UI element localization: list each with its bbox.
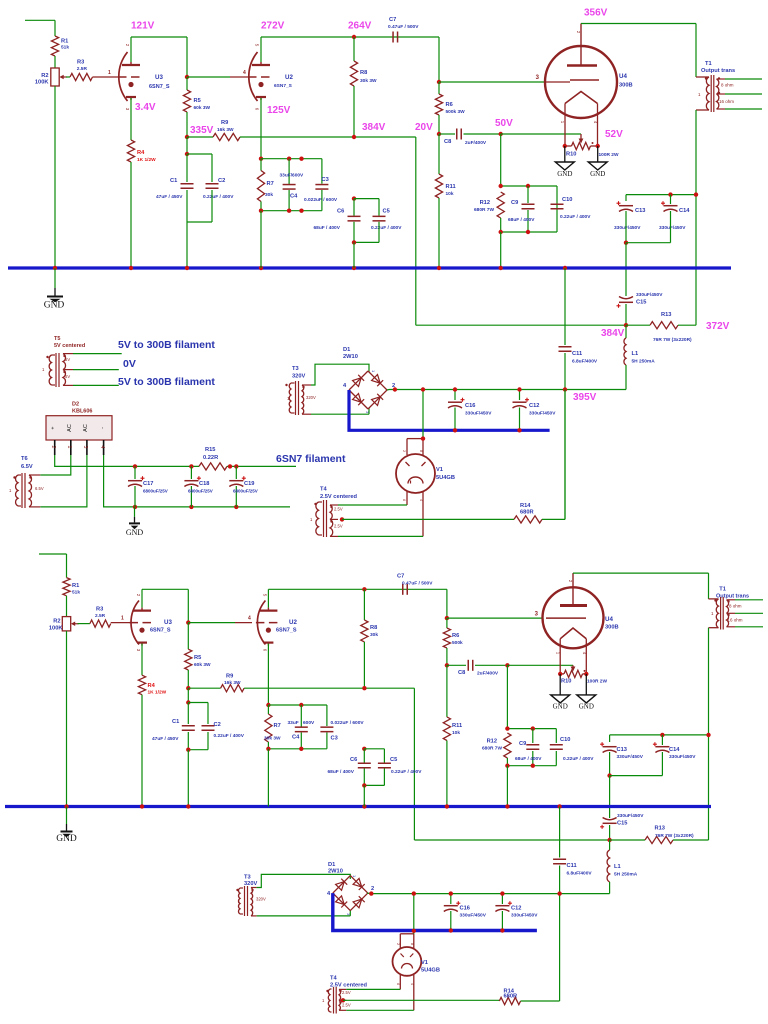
svg-text:2.5V: 2.5V [342, 1003, 351, 1008]
wire R12/C9/C10 top rail (2) [507, 728, 556, 730]
svg-text:GND: GND [579, 703, 594, 711]
wire C1/C2 bottom rail (2) [188, 749, 208, 751]
wire C6/C5 bottom rail [354, 241, 379, 243]
svg-text:68uF / 400V: 68uF / 400V [314, 225, 341, 231]
svg-text:U4: U4 [605, 616, 613, 623]
svg-text:C16: C16 [460, 906, 470, 912]
wire R3 to U3 grid [93, 76, 119, 78]
wire to U2 grid (2) [188, 622, 235, 624]
svg-text:R9: R9 [221, 120, 228, 126]
svg-text:-: - [100, 427, 106, 429]
resistor R11 [438, 134, 440, 174]
svg-text:R1: R1 [72, 583, 79, 589]
svg-text:330uF/450V: 330uF/450V [511, 913, 538, 919]
svg-text:5V to 300B filament: 5V to 300B filament [118, 376, 215, 388]
svg-text:0.22uF / 400V: 0.22uF / 400V [563, 756, 594, 762]
svg-text:U4: U4 [619, 73, 627, 80]
resistor R14 [514, 516, 542, 523]
svg-text:272V: 272V [261, 21, 285, 32]
wire U4 plate rail to T1 [581, 23, 696, 25]
svg-text:0.022uF / 600V: 0.022uF / 600V [304, 197, 338, 203]
svg-text:6SN7_S: 6SN7_S [276, 628, 297, 634]
wire R2 down to ground bus [54, 86, 56, 268]
svg-text:330uF/450V: 330uF/450V [465, 411, 492, 417]
svg-text:R8: R8 [360, 70, 367, 76]
svg-text:8 ohm: 8 ohm [721, 83, 734, 88]
wire R7/C4/C3 top rail [259, 157, 263, 161]
svg-text:C13: C13 [635, 208, 645, 214]
svg-text:330uF/450V: 330uF/450V [659, 225, 686, 231]
svg-text:300B: 300B [619, 83, 633, 89]
wire D2 AC2 to T6 bottom [40, 455, 87, 507]
svg-text:6: 6 [402, 499, 406, 501]
capacitor C12 [519, 390, 521, 401]
svg-text:372V: 372V [706, 321, 730, 332]
wire 384V drop [415, 137, 417, 325]
svg-text:AC: AC [83, 424, 89, 432]
resistor R5 (2) [187, 623, 189, 650]
svg-text:4: 4 [99, 446, 105, 449]
resistor R5 [186, 77, 188, 90]
svg-text:C5: C5 [390, 757, 397, 763]
wire 50V to R10 wiper [501, 133, 581, 135]
wire 384V rail (2) [414, 839, 609, 841]
node U3 plate / R5 [185, 75, 189, 79]
capacitor C13 (2) [603, 746, 617, 748]
wire R4 to bus (2) [141, 695, 143, 807]
svg-text:R5: R5 [194, 655, 201, 661]
capacitor C15 (2) [603, 818, 617, 820]
svg-text:GND: GND [557, 170, 572, 178]
svg-text:33uF/600V: 33uF/600V [280, 172, 305, 178]
wire R7 node to bus [260, 211, 262, 268]
wire C13/C14 bottom rail (2) [607, 773, 611, 777]
resistor R8 (2) [363, 589, 365, 620]
wire C13/C14 top rail (2) [610, 734, 709, 736]
svg-text:C16: C16 [465, 403, 475, 409]
svg-text:330uF/450V: 330uF/450V [669, 754, 696, 760]
svg-text:C3: C3 [322, 177, 329, 183]
potentiometer R2 [51, 68, 59, 86]
svg-text:C9: C9 [511, 200, 518, 206]
svg-text:100R 2W: 100R 2W [599, 152, 619, 158]
svg-text:1: 1 [108, 70, 111, 76]
resistor R14 (2) [499, 997, 520, 1004]
capacitor C14 [670, 195, 672, 204]
resistor R11 (2) [446, 665, 448, 717]
svg-text:T5: T5 [54, 336, 60, 342]
wire T3 to bridge bottom [311, 413, 369, 415]
wire input bottom-left [39, 553, 67, 555]
svg-text:680R: 680R [504, 994, 518, 1000]
svg-text:6: 6 [396, 983, 400, 985]
ground GND right of R10 [597, 146, 599, 162]
node U4 grid junction (2) [445, 616, 449, 620]
svg-text:T1: T1 [705, 61, 712, 67]
bus junction dots (2) [64, 804, 68, 808]
svg-text:20V: 20V [415, 122, 433, 133]
svg-text:68uF / 400V: 68uF / 400V [515, 756, 542, 762]
svg-text:GND: GND [56, 834, 77, 844]
svg-text:47uF / 450V: 47uF / 450V [152, 736, 179, 742]
ground GND filament [134, 507, 136, 517]
wire U2 cathode down (2) [267, 644, 269, 705]
svg-text:T3: T3 [292, 366, 299, 372]
resistor R9 (2) [188, 687, 220, 689]
svg-text:68uF / 400V: 68uF / 400V [508, 217, 535, 223]
svg-text:0.22uF / 400V: 0.22uF / 400V [203, 194, 234, 200]
svg-text:100R 2W: 100R 2W [587, 679, 607, 685]
capacitor C1 [186, 154, 188, 182]
svg-text:6.5V: 6.5V [21, 464, 33, 470]
svg-text:C4: C4 [292, 735, 300, 741]
wire R4 to ground bus [130, 162, 132, 268]
capacitor C14 (2) [661, 735, 663, 745]
wire 395V rail [389, 389, 626, 391]
svg-text:384V: 384V [362, 122, 386, 133]
svg-text:0.47uF / 500V: 0.47uF / 500V [388, 24, 419, 30]
svg-text:C9: C9 [519, 741, 526, 747]
svg-text:C1: C1 [170, 178, 177, 184]
svg-text:R12: R12 [487, 739, 497, 745]
svg-text:R11: R11 [452, 723, 462, 729]
wire C13 node down to C15 [625, 243, 627, 296]
svg-text:16k 3W: 16k 3W [224, 680, 241, 686]
wire D2 - to bottom rail [104, 455, 135, 507]
svg-text:R11: R11 [446, 184, 456, 190]
svg-text:2.5V centered: 2.5V centered [320, 494, 358, 500]
resistor R12 [497, 192, 504, 218]
svg-text:125V: 125V [267, 105, 291, 116]
svg-text:C8: C8 [458, 670, 465, 676]
resistor R7 (2) [267, 705, 269, 714]
capacitor C6 (2) [363, 749, 365, 763]
wire T3 to bridge top [311, 364, 369, 385]
capacitor C10 [556, 203, 558, 210]
svg-text:5U4GB: 5U4GB [421, 968, 440, 974]
svg-text:395V: 395V [573, 392, 597, 403]
svg-text:5V: 5V [65, 357, 70, 362]
capacitor C6 [353, 199, 355, 216]
svg-text:C7: C7 [397, 574, 404, 580]
capacitor C4 (2) [300, 705, 302, 727]
wire U3 cathode to R4 (2) [141, 644, 143, 676]
svg-text:6SN7_S: 6SN7_S [149, 84, 170, 90]
svg-text:+: + [51, 426, 57, 429]
svg-text:6SN7 filament: 6SN7 filament [276, 453, 346, 465]
capacitor C4 [288, 159, 290, 184]
capacitor C2 (2) [202, 725, 215, 727]
svg-text:5V to 300B filament: 5V to 300B filament [118, 339, 215, 351]
wire R7/C4/C3 bottom rail [261, 210, 322, 212]
capacitor C9 [527, 186, 529, 203]
svg-text:C1: C1 [172, 719, 179, 725]
wire C6 node to bus [353, 242, 355, 268]
capacitor C5 [373, 215, 386, 217]
wire R7 node to bus (2) [267, 749, 269, 807]
svg-text:C18: C18 [199, 481, 209, 487]
svg-text:30k 3W: 30k 3W [264, 736, 281, 742]
svg-text:6.5V: 6.5V [35, 486, 44, 491]
wire 395V rail (2) [371, 893, 610, 895]
tube U4 300B [545, 46, 617, 118]
svg-text:R10: R10 [566, 152, 576, 158]
svg-text:335V: 335V [190, 125, 214, 136]
svg-text:6800uF/25V: 6800uF/25V [233, 489, 258, 494]
svg-text:330uF/450V: 330uF/450V [460, 913, 487, 919]
svg-text:4: 4 [410, 983, 414, 985]
svg-text:GND: GND [590, 170, 605, 178]
node R12 top feed (2) [505, 663, 509, 667]
capacitor C11 (2) [559, 807, 561, 858]
ground GND symbol below bus (2) [66, 807, 68, 825]
svg-text:4: 4 [248, 616, 251, 622]
wire T3 to bridge top (2) [257, 874, 351, 887]
wire to 300B grid [439, 81, 545, 83]
wire R1 to R2 [54, 56, 56, 68]
svg-text:C15: C15 [636, 300, 646, 306]
ground bus (blue) (2) [5, 805, 711, 808]
svg-text:0.022uF / 600V: 0.022uF / 600V [331, 720, 365, 726]
wire 395V to R14 [564, 390, 566, 520]
wire R12 node down (2) [506, 665, 508, 728]
ground GND symbol below bus [54, 268, 56, 288]
wire R9 to 384V drop (2) [244, 687, 414, 689]
inductor L1 (2) [609, 840, 611, 850]
resistor R12 (2) [504, 733, 511, 758]
resistor R1 [51, 36, 58, 56]
svg-text:320V: 320V [244, 881, 257, 887]
svg-text:6800uF/25V: 6800uF/25V [188, 489, 213, 494]
triode U3 (6SN7) [119, 52, 128, 101]
svg-text:C14: C14 [669, 747, 680, 753]
svg-text:D1: D1 [328, 862, 335, 868]
svg-text:76R 7W (3x220R): 76R 7W (3x220R) [655, 833, 694, 839]
svg-text:C10: C10 [562, 197, 572, 203]
svg-text:320V: 320V [292, 374, 305, 380]
ground GND left of R10 (2) [559, 674, 561, 695]
svg-text:U2: U2 [289, 619, 297, 626]
svg-text:C5: C5 [383, 209, 390, 215]
svg-text:R1: R1 [61, 38, 68, 44]
svg-text:320V: 320V [256, 897, 266, 902]
svg-text:30k: 30k [265, 192, 273, 198]
hum pot R10 (2) [572, 665, 574, 668]
node 384V / R8 [352, 135, 356, 139]
svg-text:C19: C19 [244, 481, 254, 487]
svg-text:U2: U2 [285, 74, 293, 81]
rectifier minus bus (blue) (2) [333, 893, 537, 930]
wire T4 top tap to V1 (2) [346, 988, 400, 990]
svg-text:D1: D1 [343, 347, 350, 353]
wire R12/C9/C10 bottom rail (2) [507, 765, 556, 767]
capacitor C8 [439, 133, 455, 135]
svg-text:6SN7_S: 6SN7_S [150, 628, 171, 634]
svg-text:33uF: 33uF [288, 720, 299, 726]
wire T1 primary down (2) [708, 628, 710, 840]
svg-text:3.4V: 3.4V [135, 102, 156, 113]
svg-text:T4: T4 [330, 976, 337, 982]
capacitor C3 (2) [320, 726, 333, 728]
svg-text:R6: R6 [446, 102, 453, 108]
wire bridge + output [387, 389, 389, 392]
svg-text:GND: GND [126, 528, 144, 537]
svg-text:0.47uF / 500V: 0.47uF / 500V [402, 581, 433, 587]
svg-text:5V centered: 5V centered [54, 343, 85, 349]
svg-text:R2: R2 [41, 73, 48, 79]
resistor R3 (2) [78, 623, 90, 625]
svg-text:52V: 52V [605, 129, 623, 140]
wire R12/C9/C10 top rail [501, 185, 557, 187]
wire C1/C2 bottom rail [187, 221, 212, 223]
svg-text:330uF/450V: 330uF/450V [636, 292, 663, 298]
wire T5 center tap [73, 369, 119, 371]
wire R7/C4/C3 top rail (2) [266, 703, 270, 707]
svg-text:C12: C12 [529, 403, 539, 409]
wire to 300B grid (2) [447, 617, 543, 619]
resistor R6 (2) [446, 618, 448, 628]
ground GND right of R10 (2) [585, 674, 587, 695]
svg-text:2.5V: 2.5V [342, 990, 351, 995]
svg-text:100K: 100K [35, 79, 49, 85]
bus junction dots [53, 266, 57, 270]
svg-text:121V: 121V [131, 21, 155, 32]
svg-text:T6: T6 [21, 456, 28, 462]
svg-text:C2: C2 [218, 178, 225, 184]
svg-text:51k: 51k [61, 45, 69, 51]
wire T1 secondary taps (2) [735, 599, 763, 601]
potentiometer R2 (2) [62, 617, 70, 631]
svg-text:C8: C8 [444, 139, 451, 145]
svg-text:384V: 384V [601, 328, 625, 339]
node C8 (2) [445, 663, 449, 667]
inductor L1 [625, 325, 627, 338]
wire D2 AC1 to T6 top [40, 455, 71, 475]
wire R12/C9/C10 bottom rail [501, 231, 557, 233]
wire R2 to bus (2) [66, 631, 68, 807]
svg-text:680R: 680R [520, 510, 534, 516]
hum pot R10 [580, 134, 582, 141]
svg-text:0.22uF / 400V: 0.22uF / 400V [214, 733, 245, 739]
node C1 top [186, 137, 188, 154]
svg-text:2: 2 [50, 446, 56, 449]
node 20V / C8 [437, 132, 441, 136]
svg-text:KBL606: KBL606 [72, 409, 92, 415]
svg-text:0.22uF / 400V: 0.22uF / 400V [391, 769, 422, 775]
wire T4 top tap to V1 [338, 504, 407, 506]
resistor R1 (2) [63, 578, 70, 596]
resistor R4 (2) [138, 675, 145, 695]
filament - rail [135, 506, 290, 508]
wire bridge + output (2) [367, 892, 371, 895]
capacitor C5 (2) [378, 762, 391, 764]
svg-text:8: 8 [419, 450, 423, 452]
wire C13/C14 bottom rail [624, 241, 628, 245]
wire C1/C2 top rail (2) [188, 702, 208, 704]
svg-text:0.22uF / 400V: 0.22uF / 400V [371, 225, 402, 231]
wire to R10 wiper (2) [507, 664, 573, 666]
svg-text:V1: V1 [421, 960, 428, 966]
triode U2 (2) [257, 601, 265, 645]
svg-text:C4: C4 [290, 194, 298, 200]
wire U3 plate rail [131, 36, 187, 38]
resistor R9 [187, 136, 213, 138]
wire D2 + to filament rail [55, 455, 135, 466]
svg-text:10k: 10k [446, 191, 454, 197]
resistor R3 [66, 76, 70, 78]
node 50V [499, 132, 503, 136]
resistor R13 [626, 324, 650, 326]
svg-text:2: 2 [371, 886, 374, 892]
svg-text:6.8uF/400V: 6.8uF/400V [572, 359, 598, 365]
svg-text:4: 4 [419, 499, 423, 501]
wire T5 top tap [73, 353, 122, 355]
resistor R6 [438, 82, 440, 94]
svg-text:R4: R4 [137, 150, 145, 156]
svg-text:T1: T1 [719, 587, 726, 593]
wire U3 cathode to R4 [130, 98, 132, 140]
capacitor C13 [619, 205, 633, 207]
svg-text:2.5V: 2.5V [334, 507, 343, 512]
capacitor C3 [315, 184, 328, 186]
wire C6/C5 top rail [352, 196, 356, 200]
svg-text:D2: D2 [72, 402, 79, 408]
node U4 grid junction [437, 80, 441, 84]
node R8 top [352, 35, 356, 39]
svg-text:10k: 10k [452, 730, 460, 736]
svg-text:30k: 30k [370, 632, 378, 638]
svg-text:0.22R: 0.22R [203, 455, 218, 461]
svg-text:R10: R10 [561, 679, 571, 685]
svg-text:T4: T4 [320, 487, 327, 493]
svg-text:C3: C3 [331, 736, 338, 742]
wire C7 rail corner [438, 37, 440, 82]
capacitor C16 (2) [450, 894, 452, 904]
node R8 bottom (2) [362, 686, 366, 690]
svg-text:5U4GB: 5U4GB [436, 475, 455, 481]
svg-text:R15: R15 [205, 447, 215, 453]
svg-text:R3: R3 [77, 60, 84, 66]
svg-text:GND: GND [44, 301, 65, 311]
svg-text:R3: R3 [96, 607, 103, 613]
svg-text:2: 2 [402, 450, 406, 452]
svg-text:320V: 320V [306, 395, 316, 400]
svg-text:U3: U3 [164, 619, 172, 626]
svg-text:330uF/450V: 330uF/450V [614, 225, 641, 231]
capacitor C1 (2) [187, 703, 189, 725]
tube U4 300B (2) [543, 587, 604, 648]
svg-text:600V: 600V [303, 720, 315, 726]
svg-text:C17: C17 [143, 481, 153, 487]
node U3 plate junction (2) [186, 620, 190, 624]
svg-text:R5: R5 [194, 98, 201, 104]
svg-text:2.5R: 2.5R [77, 66, 88, 72]
svg-text:2: 2 [396, 943, 400, 945]
filament + rail [135, 465, 199, 467]
svg-text:C6: C6 [350, 757, 357, 763]
svg-text:8: 8 [410, 943, 414, 945]
svg-text:2uF/400V: 2uF/400V [465, 140, 487, 146]
svg-text:264V: 264V [348, 21, 372, 32]
wire U3 plate rail (2) [142, 588, 188, 590]
wire C13 node down to C15 (2) [609, 776, 611, 818]
svg-text:C11: C11 [572, 351, 582, 357]
node 335V junction [185, 135, 189, 139]
svg-text:16 ohm: 16 ohm [719, 99, 734, 104]
svg-text:2.5V: 2.5V [334, 524, 343, 529]
svg-text:51k: 51k [72, 590, 80, 596]
resistor R15 [199, 463, 227, 470]
